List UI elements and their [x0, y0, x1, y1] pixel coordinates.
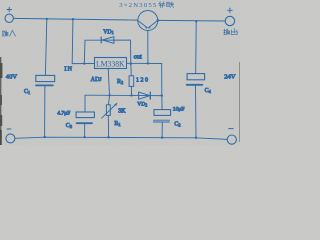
input terminal (+)	[5, 7, 13, 22]
capacitor C1 lead top	[45, 19, 46, 75]
label 输出	[224, 29, 238, 35]
junction VD1 left	[83, 62, 85, 64]
diode VD1	[101, 37, 114, 44]
label glyph 联	[166, 2, 173, 8]
wire top rail right	[158, 19, 225, 22]
transistor V (3×2N3055 composite)	[138, 11, 158, 31]
junction out/VD1/R2	[130, 63, 132, 65]
wire out	[127, 62, 162, 64]
junction adj/R1	[108, 94, 110, 96]
capacitor C1	[36, 75, 55, 136]
capacitor C4	[187, 74, 205, 138]
regulator U1 LM338K	[95, 58, 127, 69]
wire bottom rail	[15, 137, 227, 139]
junction out/emitter	[147, 62, 149, 64]
wire top rail left	[13, 18, 137, 20]
junction C1 bottom	[43, 136, 45, 138]
wire ADJ drop	[108, 69, 109, 105]
junction right branch tap	[195, 20, 197, 22]
wire IN drop	[72, 19, 94, 63]
capacitor C3 lead	[84, 95, 86, 112]
junction right branch bottom	[195, 137, 197, 139]
capacitor C2	[153, 110, 170, 138]
label 输入	[2, 30, 15, 36]
wire out drop to C2	[161, 64, 163, 110]
junction transistor right	[157, 19, 160, 22]
negative terminal right (-)	[227, 129, 236, 145]
junction C1 tap	[46, 18, 48, 20]
junction C2 bottom	[161, 136, 163, 138]
negative terminal left (-)	[6, 129, 15, 143]
potentiometer R1	[102, 103, 118, 137]
wire adj net horizontal	[85, 94, 162, 96]
junction C2 top / out drop	[161, 94, 163, 96]
junction IN tap	[72, 18, 74, 20]
junction C3 bottom	[83, 136, 85, 138]
junction R1 bottom	[107, 136, 109, 138]
resistor R2	[129, 64, 134, 96]
junction R2 bottom	[130, 94, 132, 96]
label glyph 并	[159, 2, 165, 8]
diode VD2	[139, 92, 151, 99]
label: 3×2N3055 parallel (并联)	[119, 2, 157, 9]
wire VD1 loop	[84, 40, 131, 64]
output terminal (+)	[225, 8, 234, 26]
wire right branch	[195, 21, 198, 73]
wire emitter drop from transistor	[147, 31, 149, 64]
capacitor C3	[76, 112, 94, 137]
